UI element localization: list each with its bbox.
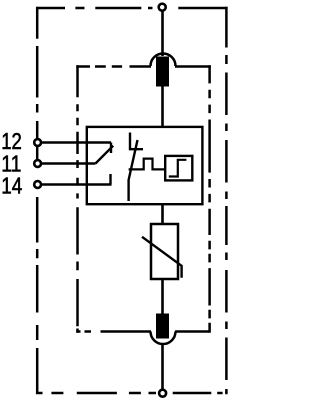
protection module dashed box right edge: [208, 65, 211, 332]
signalling contact 11 wire: [40, 162, 96, 164]
varistor RV1 body: [151, 224, 178, 279]
wire: top terminal to upper plug contact: [161, 10, 164, 56]
enclosure dash-dot border bottom edge: [36, 392, 228, 395]
wire: varistor to lower plug contact: [161, 279, 164, 315]
protection module dashed box left edge: [76, 65, 79, 332]
protection module dashed box top edge: [76, 65, 211, 68]
signalling contact 12 wire: [40, 141, 111, 143]
thermal disconnector blade: [129, 140, 138, 201]
enclosure dash-dot border left edge: [36, 7, 39, 393]
contact 12 stub: [110, 143, 112, 154]
terminal node 11: [34, 160, 41, 167]
terminal node 12: [34, 139, 41, 146]
mechanical link with bump to trigger unit: [129, 159, 166, 170]
enclosure dash-dot border right edge: [225, 7, 228, 393]
lower plug-in contact blade (filled): [156, 314, 169, 339]
top terminal node: [159, 4, 166, 11]
wire: lower plug contact to bottom terminal: [161, 344, 164, 389]
lower plug-in contact arc: [151, 332, 176, 344]
signalling contact 14 wire: [40, 183, 112, 185]
disconnection / monitoring device box: [87, 127, 203, 204]
protection module dashed box bottom edge: [76, 330, 209, 333]
svg-text:14: 14: [1, 172, 22, 198]
changeover blade 11-12: [96, 146, 114, 164]
step function symbol inside trigger box: [169, 160, 187, 177]
enclosure dash-dot border top edge: [37, 7, 227, 10]
terminal node 14: [34, 181, 41, 188]
upper plug-in contact blade (filled): [156, 57, 169, 87]
varistor diagonal stroke: [142, 237, 182, 278]
bottom terminal node: [159, 390, 166, 397]
thermal disconnector fixed contact (L stub): [130, 133, 143, 150]
wire: upper plug contact to disconnection device box: [161, 87, 164, 128]
upper plug-in contact arc: [151, 53, 176, 66]
contact 14 stub: [109, 174, 111, 185]
wire: device box to varistor: [161, 203, 164, 225]
trigger / status unit box U1: [165, 156, 192, 181]
